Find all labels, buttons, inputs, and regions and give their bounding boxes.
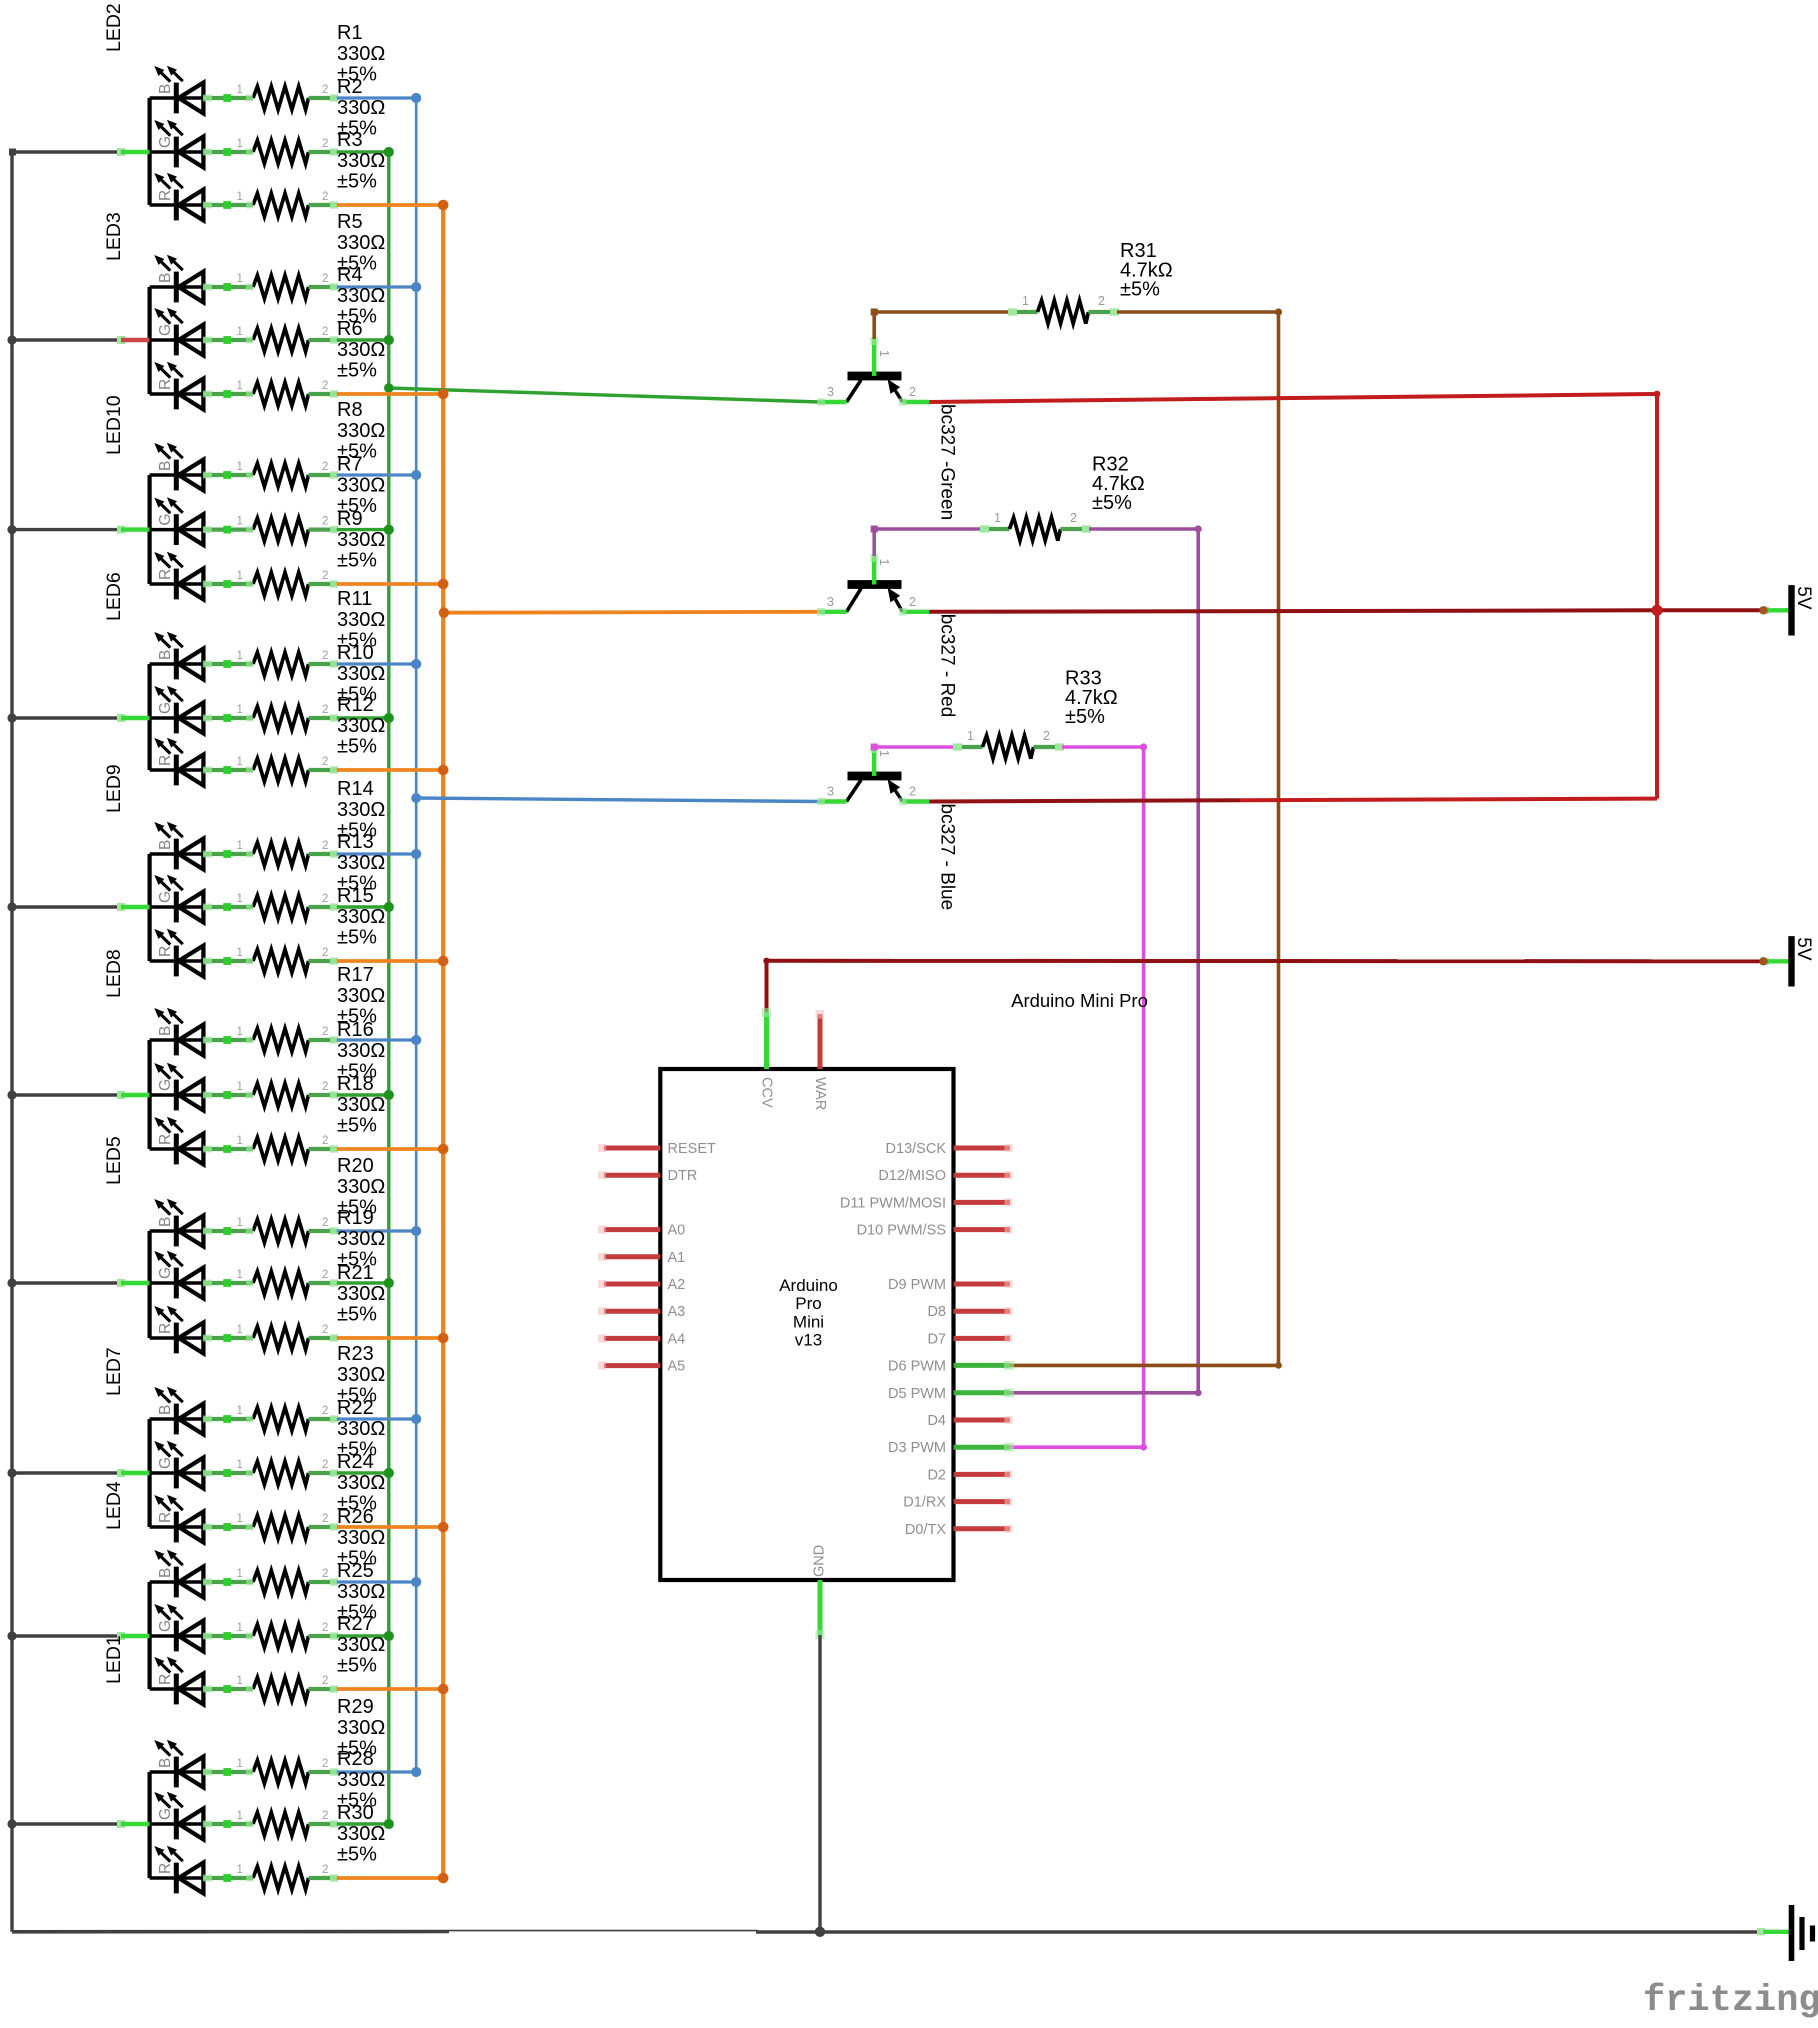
svg-text:2: 2 [322,380,328,392]
svg-text:2: 2 [322,1026,328,1038]
svg-text:G: G [157,136,174,148]
svg-text:2: 2 [322,1758,328,1770]
svg-text:1: 1 [237,1324,243,1336]
svg-text:1: 1 [237,380,243,392]
svg-text:R: R [157,1134,174,1145]
svg-text:2: 2 [322,138,328,150]
svg-text:B: B [157,1758,174,1768]
svg-text:GND: GND [812,1545,828,1577]
svg-text:330Ω: 330Ω [337,852,385,874]
svg-text:330Ω: 330Ω [337,1176,385,1198]
svg-text:2: 2 [322,570,328,582]
svg-text:R22: R22 [337,1397,374,1419]
svg-text:RESET: RESET [668,1141,716,1157]
svg-text:2: 2 [322,1324,328,1336]
svg-text:330Ω: 330Ω [337,1040,385,1062]
svg-text:330Ω: 330Ω [337,1228,385,1250]
svg-text:R4: R4 [337,264,363,286]
svg-text:D11 PWM/MOSI: D11 PWM/MOSI [840,1195,946,1211]
svg-text:3: 3 [827,385,834,399]
svg-text:330Ω: 330Ω [337,43,385,65]
svg-text:R6: R6 [337,318,363,340]
svg-text:R19: R19 [337,1207,374,1229]
svg-text:330Ω: 330Ω [337,715,385,737]
svg-text:1: 1 [237,516,243,528]
svg-text:G: G [157,1267,174,1279]
svg-text:1: 1 [877,350,891,357]
svg-text:1: 1 [994,511,1001,525]
svg-text:2: 2 [322,1864,328,1876]
svg-text:1: 1 [237,138,243,150]
svg-text:1: 1 [237,1405,243,1417]
svg-text:R: R [157,1323,174,1334]
svg-text:R2: R2 [337,76,363,98]
svg-text:2: 2 [322,756,328,768]
svg-text:R25: R25 [337,1560,374,1582]
svg-text:bc327 -Green: bc327 -Green [937,404,958,520]
svg-text:±5%: ±5% [337,1304,377,1326]
svg-text:Pro: Pro [795,1294,821,1313]
svg-text:330Ω: 330Ω [337,1581,385,1603]
svg-text:2: 2 [322,650,328,662]
svg-text:D2: D2 [927,1467,946,1483]
svg-text:330Ω: 330Ω [337,1769,385,1791]
svg-text:G: G [157,891,174,903]
svg-text:1: 1 [1022,294,1029,308]
svg-text:G: G [157,702,174,714]
svg-text:R15: R15 [337,885,374,907]
svg-text:2: 2 [322,1459,328,1471]
svg-text:B: B [157,840,174,850]
svg-text:A5: A5 [668,1359,686,1375]
svg-text:330Ω: 330Ω [337,285,385,307]
svg-text:DTR: DTR [668,1168,698,1184]
svg-text:1: 1 [237,1269,243,1281]
svg-text:R8: R8 [337,399,363,421]
svg-text:5V: 5V [1793,937,1814,961]
svg-text:R21: R21 [337,1262,374,1284]
svg-text:2: 2 [909,595,916,609]
svg-text:A4: A4 [668,1331,686,1347]
svg-text:D9 PWM: D9 PWM [888,1277,946,1293]
svg-text:1: 1 [237,1135,243,1147]
svg-text:±5%: ±5% [337,1115,377,1137]
svg-text:D12/MISO: D12/MISO [878,1168,946,1184]
svg-text:±5%: ±5% [337,736,377,758]
svg-text:G: G [157,324,174,336]
svg-text:330Ω: 330Ω [337,97,385,119]
svg-text:CCV: CCV [759,1077,775,1108]
svg-text:B: B [157,1568,174,1578]
svg-text:2: 2 [1043,729,1050,743]
svg-text:2: 2 [322,1405,328,1417]
svg-text:bc327 - Red: bc327 - Red [937,614,958,718]
svg-text:2: 2 [322,1622,328,1634]
svg-text:2: 2 [322,840,328,852]
svg-text:R24: R24 [337,1451,374,1473]
svg-text:1: 1 [967,729,974,743]
svg-text:2: 2 [322,461,328,473]
svg-text:1: 1 [237,461,243,473]
svg-text:R30: R30 [337,1802,374,1824]
svg-text:R5: R5 [337,211,363,233]
svg-text:330Ω: 330Ω [337,1634,385,1656]
svg-text:2: 2 [909,385,916,399]
svg-text:LED1: LED1 [103,1635,125,1684]
svg-text:±5%: ±5% [337,1844,377,1866]
svg-text:2: 2 [322,704,328,716]
svg-text:B: B [157,84,174,94]
svg-text:330Ω: 330Ω [337,339,385,361]
svg-text:2: 2 [322,947,328,959]
svg-text:330Ω: 330Ω [337,1418,385,1440]
svg-text:bc327 - Blue: bc327 - Blue [937,804,958,911]
svg-text:R: R [157,190,174,201]
svg-text:A2: A2 [668,1277,686,1293]
svg-text:1: 1 [237,840,243,852]
svg-text:D8: D8 [927,1304,946,1320]
svg-text:1: 1 [237,1081,243,1093]
svg-text:R: R [157,1674,174,1685]
svg-text:2: 2 [322,893,328,905]
svg-text:R1: R1 [337,22,363,44]
svg-text:B: B [157,461,174,471]
svg-text:1: 1 [237,1026,243,1038]
svg-text:±5%: ±5% [337,927,377,949]
svg-text:2: 2 [322,1810,328,1822]
svg-text:B: B [157,650,174,660]
svg-text:D13/SCK: D13/SCK [886,1141,947,1157]
svg-text:2: 2 [322,84,328,96]
svg-text:R26: R26 [337,1506,374,1528]
svg-text:330Ω: 330Ω [337,1823,385,1845]
svg-text:±5%: ±5% [1065,706,1105,728]
svg-text:G: G [157,1808,174,1820]
svg-text:LED7: LED7 [103,1347,125,1396]
svg-text:2: 2 [322,1568,328,1580]
svg-text:3: 3 [827,785,834,799]
svg-text:5V: 5V [1793,586,1814,610]
svg-text:±5%: ±5% [337,550,377,572]
svg-text:330Ω: 330Ω [337,475,385,497]
svg-text:330Ω: 330Ω [337,1717,385,1739]
svg-text:330Ω: 330Ω [337,1283,385,1305]
svg-text:1: 1 [237,84,243,96]
svg-text:A3: A3 [668,1304,686,1320]
svg-text:3: 3 [827,595,834,609]
svg-text:330Ω: 330Ω [337,1364,385,1386]
svg-text:LED9: LED9 [103,764,125,813]
svg-text:R27: R27 [337,1613,374,1635]
svg-text:LED10: LED10 [103,395,125,455]
svg-text:1: 1 [237,1675,243,1687]
svg-text:R: R [157,755,174,766]
svg-text:R3: R3 [337,129,363,151]
svg-text:330Ω: 330Ω [337,906,385,928]
svg-text:1: 1 [237,1513,243,1525]
svg-text:330Ω: 330Ω [337,609,385,631]
svg-text:Mini: Mini [793,1312,824,1331]
svg-text:G: G [157,514,174,526]
svg-text:R9: R9 [337,508,363,530]
svg-text:330Ω: 330Ω [337,1094,385,1116]
svg-text:G: G [157,1457,174,1469]
svg-text:R14: R14 [337,778,374,800]
svg-text:fritzing: fritzing [1643,1980,1818,2022]
svg-text:R: R [157,569,174,580]
svg-text:±5%: ±5% [337,1655,377,1677]
svg-text:R23: R23 [337,1343,374,1365]
svg-text:1: 1 [237,1810,243,1822]
svg-text:LED4: LED4 [103,1481,125,1530]
svg-text:1: 1 [237,273,243,285]
svg-text:R11: R11 [337,588,372,610]
svg-text:LED3: LED3 [103,212,125,261]
svg-text:1: 1 [237,1758,243,1770]
svg-text:LED6: LED6 [103,572,125,621]
svg-text:LED5: LED5 [103,1136,125,1185]
svg-text:1: 1 [237,704,243,716]
svg-text:D4: D4 [927,1413,946,1429]
svg-text:D1/RX: D1/RX [903,1495,946,1511]
svg-text:G: G [157,1079,174,1091]
svg-text:2: 2 [322,1217,328,1229]
svg-text:1: 1 [237,326,243,338]
svg-text:1: 1 [237,1568,243,1580]
svg-text:2: 2 [322,1513,328,1525]
svg-text:330Ω: 330Ω [337,799,385,821]
svg-text:D5 PWM: D5 PWM [888,1386,946,1402]
svg-text:D6 PWM: D6 PWM [888,1358,946,1374]
svg-text:±5%: ±5% [337,171,377,193]
svg-text:R12: R12 [337,694,374,716]
svg-text:2: 2 [1098,294,1105,308]
svg-text:1: 1 [877,750,891,757]
svg-text:R7: R7 [337,454,363,476]
svg-text:2: 2 [322,1675,328,1687]
svg-text:R18: R18 [337,1073,374,1095]
svg-text:2: 2 [322,1135,328,1147]
svg-text:330Ω: 330Ω [337,150,385,172]
svg-text:D3 PWM: D3 PWM [888,1440,946,1456]
svg-text:2: 2 [1070,511,1077,525]
svg-text:330Ω: 330Ω [337,420,385,442]
svg-text:1: 1 [237,650,243,662]
svg-text:2: 2 [322,1081,328,1093]
svg-text:1: 1 [237,893,243,905]
svg-text:D0/TX: D0/TX [905,1522,946,1538]
svg-text:2: 2 [322,191,328,203]
svg-text:±5%: ±5% [1120,279,1160,301]
svg-text:R13: R13 [337,831,374,853]
svg-text:A1: A1 [668,1250,686,1266]
svg-text:1: 1 [237,1622,243,1634]
svg-text:WAR: WAR [812,1077,828,1110]
svg-text:330Ω: 330Ω [337,1472,385,1494]
svg-text:R: R [157,946,174,957]
svg-text:R29: R29 [337,1696,374,1718]
svg-text:G: G [157,1620,174,1632]
svg-text:2: 2 [322,516,328,528]
svg-text:±5%: ±5% [1092,492,1132,514]
svg-text:1: 1 [237,191,243,203]
svg-text:±5%: ±5% [337,360,377,382]
svg-text:D10 PWM/SS: D10 PWM/SS [857,1223,946,1239]
svg-text:B: B [157,1026,174,1036]
svg-text:R16: R16 [337,1019,374,1041]
svg-text:R20: R20 [337,1155,374,1177]
svg-text:Arduino Mini Pro: Arduino Mini Pro [1011,990,1148,1011]
svg-text:330Ω: 330Ω [337,663,385,685]
svg-text:330Ω: 330Ω [337,985,385,1007]
svg-text:R10: R10 [337,642,374,664]
svg-text:2: 2 [322,326,328,338]
svg-text:R: R [157,1512,174,1523]
svg-text:LED2: LED2 [103,3,125,52]
svg-text:1: 1 [877,559,891,566]
svg-text:330Ω: 330Ω [337,1527,385,1549]
svg-text:1: 1 [237,756,243,768]
svg-text:LED8: LED8 [103,949,125,998]
svg-text:330Ω: 330Ω [337,232,385,254]
svg-text:1: 1 [237,1459,243,1471]
svg-text:B: B [157,1217,174,1227]
svg-text:2: 2 [322,1269,328,1281]
svg-text:Arduino: Arduino [779,1276,838,1295]
svg-text:2: 2 [909,785,916,799]
svg-text:330Ω: 330Ω [337,529,385,551]
svg-text:B: B [157,1405,174,1415]
svg-text:1: 1 [237,947,243,959]
svg-text:1: 1 [237,1217,243,1229]
svg-text:1: 1 [237,1864,243,1876]
svg-text:B: B [157,273,174,283]
svg-text:D7: D7 [927,1331,946,1347]
svg-text:2: 2 [322,273,328,285]
svg-text:R28: R28 [337,1748,374,1770]
svg-text:A0: A0 [668,1223,686,1239]
svg-text:R: R [157,379,174,390]
svg-text:v13: v13 [795,1331,822,1350]
svg-text:1: 1 [237,570,243,582]
svg-text:R17: R17 [337,964,374,986]
svg-text:R: R [157,1863,174,1874]
